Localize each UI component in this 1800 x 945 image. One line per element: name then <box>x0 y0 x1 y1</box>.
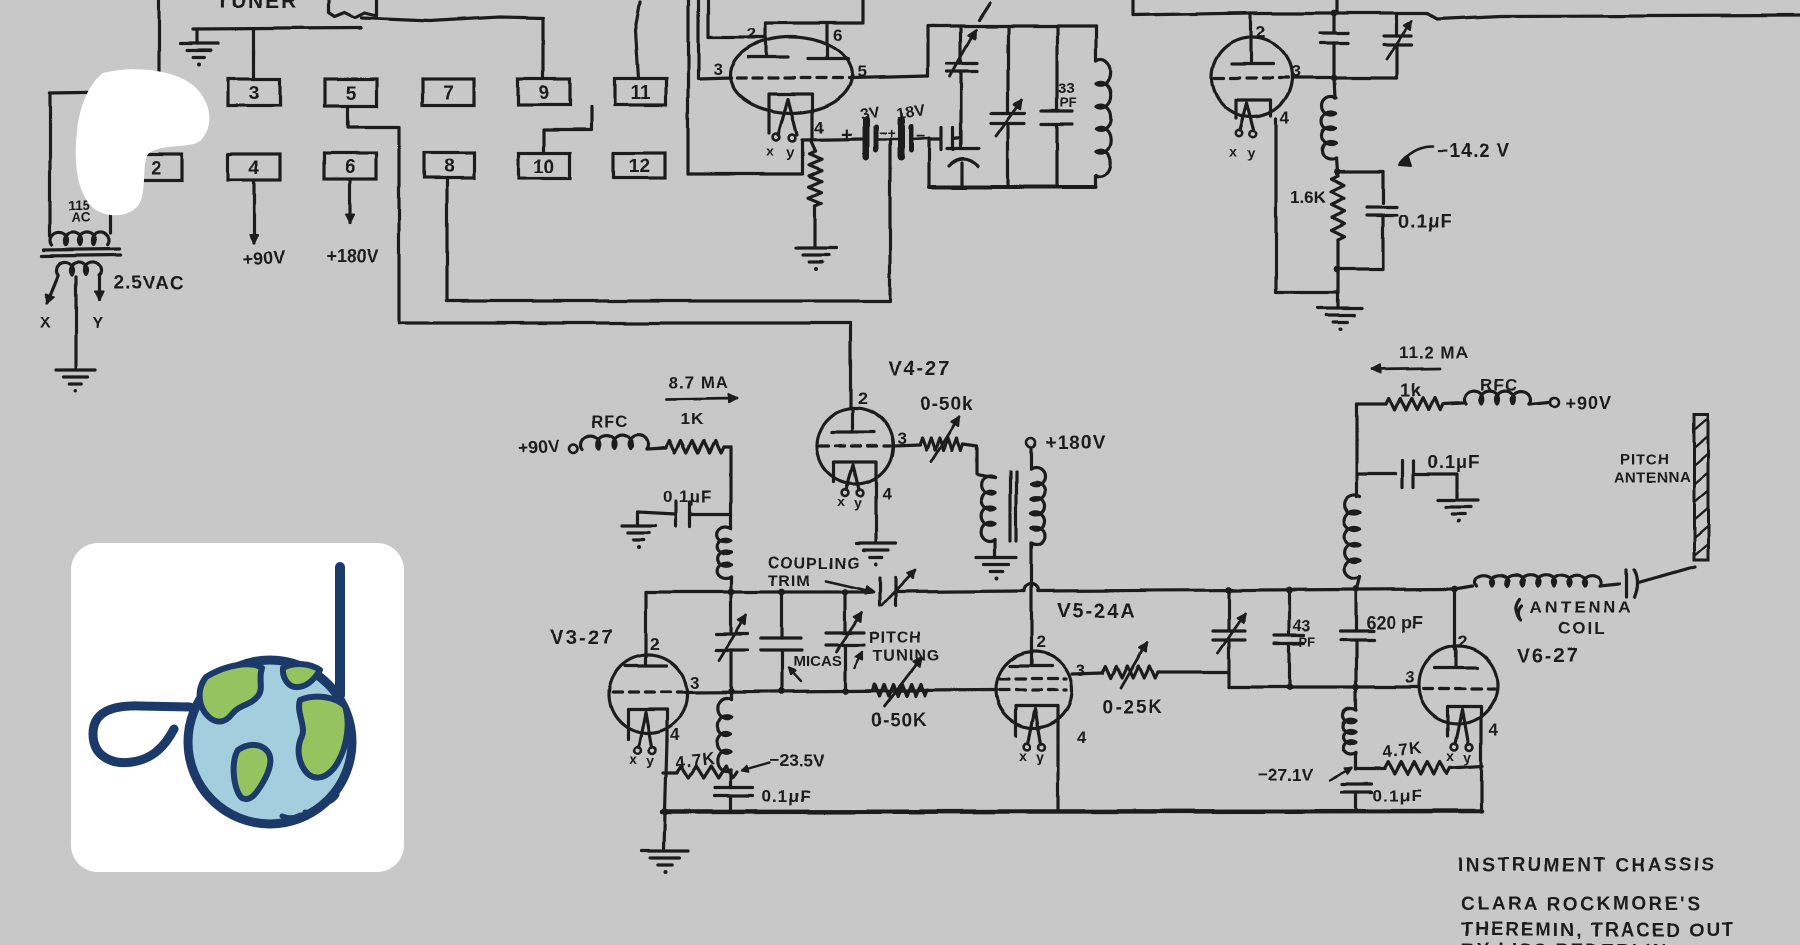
V3 guts <box>613 656 686 768</box>
wire T2 primary ground <box>993 540 996 556</box>
label +180V <box>326 246 379 266</box>
capacitor C1 series <box>929 128 961 150</box>
transformer T2 core <box>1010 471 1016 541</box>
transformer T1 primary winding <box>51 232 110 245</box>
wire V2 pin3 line <box>1292 76 1397 79</box>
svg-text:8: 8 <box>444 157 455 178</box>
capacitor C10 620pF <box>1341 589 1374 687</box>
caption cut line <box>1461 941 1668 945</box>
label 11.2MA <box>1399 343 1469 362</box>
potentiometer R4 0-50K <box>920 417 963 462</box>
terminal box 11 <box>615 79 666 105</box>
label MICAS <box>793 653 841 670</box>
wire L5 to node <box>1354 753 1357 769</box>
wire V5 pin4 down <box>1056 738 1059 811</box>
svg-text:4: 4 <box>1077 728 1087 747</box>
arrow -23.5V pointer <box>742 763 770 772</box>
antenna coil brace <box>1516 599 1522 620</box>
ground G6 C5 <box>622 526 656 549</box>
wire y301 to battery tap <box>447 139 890 301</box>
capacitor C2 33PF <box>1042 26 1072 187</box>
variable capacitor VC7 <box>1213 590 1245 687</box>
svg-text:3: 3 <box>1405 668 1414 687</box>
ground G5 V4 <box>856 543 896 566</box>
label pin2 V3 <box>650 635 659 654</box>
inductor L6 plate tank <box>1345 496 1360 590</box>
junction dot top <box>1331 10 1338 17</box>
V1 cathode box <box>769 94 812 133</box>
label 115 AC <box>68 198 91 225</box>
terminal circle +90V <box>570 444 579 453</box>
wire from top edge to V2 <box>1133 0 1251 15</box>
terminal circle +90V right <box>1550 398 1559 407</box>
label + battery <box>841 124 853 146</box>
terminal box 9 <box>518 79 570 105</box>
V2 xy terminals <box>1229 130 1256 161</box>
wire R3 corner down <box>724 447 731 528</box>
arrow -27.1V pointer <box>1330 768 1352 780</box>
svg-text:RFC: RFC <box>591 412 629 431</box>
wire V1 pin5 to tank <box>852 76 928 78</box>
V3 pin3 line <box>687 690 997 692</box>
label pin3 V1 <box>713 60 722 79</box>
wire V4 pin4 ground <box>874 484 877 541</box>
svg-text:11.2 MA: 11.2 MA <box>1399 343 1469 362</box>
V1 plate left pin2 <box>748 23 788 57</box>
V2 grid dashes <box>1215 76 1292 79</box>
inductor L5 grid leak V6 <box>1343 687 1356 755</box>
label -27.1V <box>1258 765 1313 784</box>
label 1K <box>680 410 704 429</box>
svg-text:+90V: +90V <box>242 247 286 270</box>
V4 guts <box>820 408 890 511</box>
wire TUNER box left edge <box>157 0 160 88</box>
arrow pitch tuning pointer <box>854 652 862 668</box>
terminal box 2 <box>118 154 182 180</box>
caption INSTRUMENT CHASSIS <box>1458 855 1717 876</box>
resistor R6 4.7K <box>663 766 737 778</box>
svg-text:y: y <box>1464 749 1472 765</box>
terminal box 3 <box>228 79 280 106</box>
resistor R9 1K <box>1357 398 1443 410</box>
svg-text:CLARA ROCKMORE'S: CLARA ROCKMORE'S <box>1461 894 1702 915</box>
label PITCH TUNING <box>869 630 940 665</box>
svg-text:x: x <box>837 494 845 510</box>
capacitor C12 0.1uF right <box>1357 461 1457 498</box>
svg-text:y: y <box>1036 749 1044 765</box>
svg-text:y: y <box>786 144 794 160</box>
svg-text:2: 2 <box>151 158 162 179</box>
svg-text:y: y <box>854 495 862 511</box>
svg-text:+: + <box>841 124 853 146</box>
wire battery junction down <box>927 138 930 187</box>
label V6-27 <box>1516 645 1579 667</box>
wire V4 pin3 to pot <box>893 445 920 446</box>
svg-text:43: 43 <box>1293 618 1311 635</box>
svg-text:V4-27: V4-27 <box>888 358 951 380</box>
label pin4 V4 <box>882 484 892 503</box>
junction dot grid <box>1331 75 1338 82</box>
label pin2 V4 <box>858 389 867 408</box>
label TUNER (cut off at top) <box>216 0 298 13</box>
capacitor C7 pitch trim <box>826 592 864 691</box>
tank top rail <box>928 26 1096 76</box>
svg-text:0.1μF: 0.1μF <box>1428 452 1480 472</box>
svg-text:9: 9 <box>539 83 550 104</box>
label pin3 V5 <box>1076 661 1085 680</box>
svg-text:ANTENNA: ANTENNA <box>1614 469 1691 486</box>
label pin4 V6 <box>1488 720 1498 739</box>
wire to varcap corner <box>1334 11 1397 14</box>
wire node L from box12 line <box>688 140 802 174</box>
terminal box 5 <box>325 79 377 106</box>
trimmer cap VC2 curved plate <box>947 136 979 187</box>
wire pot to varcap branch <box>1158 670 1229 673</box>
terminal box 12 <box>614 153 665 178</box>
svg-text:TUNING: TUNING <box>873 648 940 665</box>
label pin3 V3 <box>690 673 699 692</box>
svg-text:V5-24A: V5-24A <box>1057 600 1137 622</box>
ground G4 V2 <box>1318 308 1362 331</box>
wire secondary right lead with arrow <box>95 276 103 300</box>
svg-text:4: 4 <box>1488 720 1498 739</box>
label 0-25K <box>1102 698 1164 719</box>
capacitor C13 antenna series <box>1600 567 1695 597</box>
svg-text:x: x <box>766 143 774 159</box>
tube V2 envelope <box>1212 37 1292 117</box>
svg-text:5: 5 <box>346 84 357 105</box>
label 0-50K upper <box>920 394 974 415</box>
wire block to box9 <box>362 17 543 77</box>
inductor L3 to bus <box>717 527 731 593</box>
wire bus to V6 pin2 <box>1453 589 1456 649</box>
junction dots y687 <box>1286 684 1360 691</box>
label - after 18V <box>916 128 925 145</box>
junction dots bus left <box>728 589 849 596</box>
resistor R3 1K <box>666 441 724 453</box>
label pin3 V2 <box>1291 62 1300 81</box>
junction L4 R6 <box>729 770 732 788</box>
svg-text:MICAS: MICAS <box>793 653 841 670</box>
svg-text:−23.5V: −23.5V <box>770 751 825 770</box>
label 3V <box>859 104 881 124</box>
svg-text:+90V: +90V <box>517 435 561 458</box>
tube V3 envelope <box>609 655 687 733</box>
svg-text:8.7 MA: 8.7 MA <box>669 373 730 392</box>
wire junction up <box>1335 0 1338 13</box>
wire bus corner to V3 pin2 <box>644 592 647 656</box>
label PITCH ANTENNA <box>1614 451 1691 486</box>
tube V4 envelope <box>817 408 893 484</box>
svg-text:+90V: +90V <box>1565 393 1612 413</box>
svg-text:ANTENNA: ANTENNA <box>1530 598 1634 617</box>
label pin2 V1 <box>747 24 756 43</box>
wire V6 pin4 down <box>1479 738 1482 811</box>
svg-text:6: 6 <box>833 26 842 45</box>
svg-text:x: x <box>630 751 638 767</box>
capacitor C6 mica <box>761 592 801 691</box>
svg-text:0-50K: 0-50K <box>871 710 928 731</box>
label 620 pF <box>1366 613 1423 633</box>
label 43 PF <box>1293 618 1316 649</box>
label Y <box>92 315 103 332</box>
svg-text:7: 7 <box>443 83 454 104</box>
svg-text:X: X <box>40 315 51 332</box>
terminal box 10 <box>519 153 570 178</box>
label pin4 V5 <box>1077 728 1087 747</box>
variable capacitor VC6 <box>716 592 748 691</box>
caption CLARA ROCKMORE'S <box>1461 894 1702 915</box>
ground bus <box>662 811 1482 812</box>
variable capacitor VC3 <box>991 26 1025 187</box>
wire top into plate <box>708 0 766 37</box>
transformer T1 core <box>42 249 121 256</box>
svg-text:x: x <box>1019 748 1027 764</box>
bus wire left segment <box>646 590 873 593</box>
svg-text:AC: AC <box>71 210 91 225</box>
inductor L2 grid choke <box>1322 78 1336 159</box>
ground G2 under transformer <box>56 370 96 393</box>
inductor L1 tank <box>1096 26 1111 187</box>
wire y323 to V4 grid <box>399 323 851 408</box>
label V5-24A <box>1057 600 1137 622</box>
svg-text:x: x <box>1447 748 1455 764</box>
wire R2 down <box>1336 240 1339 269</box>
wire V2 pin4 down <box>1276 119 1338 292</box>
resistor R2 1.6K <box>1332 176 1345 240</box>
wire pot to transformer <box>963 444 987 476</box>
capacitor C5 0.1uF <box>638 502 731 526</box>
label +180V mid <box>1046 433 1106 454</box>
V1 xy terminals <box>766 134 795 160</box>
svg-text:2: 2 <box>1036 633 1045 652</box>
V1 filament <box>778 99 797 135</box>
svg-text:x: x <box>1229 144 1237 160</box>
capacitor C4 0.1uF bypass <box>1338 172 1397 269</box>
terminal box 6 <box>324 153 376 179</box>
svg-text:2.5VAC: 2.5VAC <box>113 273 184 294</box>
svg-text:4: 4 <box>1280 108 1290 127</box>
svg-text:COIL: COIL <box>1558 619 1607 638</box>
label +90V feed <box>517 435 561 458</box>
logo card with theremin globe <box>71 543 404 872</box>
label pin4 V3 <box>670 725 680 744</box>
label pin2 V2 <box>1256 22 1265 41</box>
ground G8 main <box>642 851 688 874</box>
label RFC right <box>1480 376 1518 395</box>
V2 plate pin2 <box>1232 13 1273 64</box>
arrow -14.2V pointer <box>1399 146 1433 166</box>
svg-text:4: 4 <box>670 725 680 744</box>
svg-text:4: 4 <box>249 158 260 179</box>
wire battery to junction <box>911 138 929 139</box>
wire T2 sec top to +180V <box>1029 450 1032 469</box>
svg-text:y: y <box>1247 145 1255 161</box>
wire junction to ground <box>1336 269 1339 306</box>
wire plate top bus <box>766 0 863 23</box>
resistor R8 4.7K right <box>1356 762 1482 774</box>
junction dot pin4 bus <box>662 809 669 816</box>
svg-text:PITCH: PITCH <box>869 630 922 647</box>
label +90V right <box>1565 393 1612 413</box>
transformer T2 secondary <box>1031 467 1045 544</box>
ground G1 tuner <box>180 29 218 66</box>
svg-text:INSTRUMENT CHASSIS: INSTRUMENT CHASSIS <box>1458 855 1717 876</box>
label pin3 V6 <box>1405 668 1414 687</box>
label pin2 V5 <box>1036 633 1045 652</box>
pitch antenna bar <box>1694 414 1708 560</box>
wire box5 down-right-down <box>348 106 399 323</box>
tube V5 envelope <box>996 652 1072 728</box>
svg-text:620 pF: 620 pF <box>1366 613 1423 633</box>
label V3-27 <box>551 627 614 649</box>
bus wire right segment <box>896 584 1455 592</box>
label pin4 V1 <box>814 118 824 137</box>
terminal box 7 <box>422 79 474 105</box>
svg-text:PITCH: PITCH <box>1620 451 1670 468</box>
svg-text:2: 2 <box>1256 22 1265 41</box>
arrow coupling trim pointer <box>826 581 874 594</box>
wire V3 pin4 down <box>664 739 667 849</box>
label 18V <box>895 102 926 123</box>
battery B2 18V <box>901 120 911 157</box>
capacitor C11 0.1uF V6 <box>1342 784 1372 811</box>
label 4.7K right <box>1381 739 1423 762</box>
svg-text:−27.1V: −27.1V <box>1258 765 1313 784</box>
wire box9 to box10 jog <box>544 107 591 153</box>
wire L2 to junction <box>1334 158 1341 272</box>
label -23.5V <box>770 751 825 770</box>
wire y687 line <box>1229 685 1419 688</box>
wire top right to edge <box>1397 13 1800 19</box>
svg-text:0.1μF: 0.1μF <box>1373 786 1422 805</box>
inductor RFC1 <box>582 435 648 449</box>
battery B1 3V <box>866 120 876 157</box>
svg-text:3V: 3V <box>859 104 881 124</box>
terminal box 8 <box>424 153 474 178</box>
arrow +180V from box6 <box>346 179 354 222</box>
wire secondary left lead with arrow <box>46 276 58 303</box>
svg-text:2: 2 <box>650 635 659 654</box>
svg-text:COUPLING: COUPLING <box>768 555 860 572</box>
wire center tap down <box>74 277 77 368</box>
svg-text:0.1μF: 0.1μF <box>762 787 811 806</box>
label 0.1uF C8 <box>762 787 811 806</box>
tube V6 envelope <box>1419 646 1497 724</box>
wire pin4 to node <box>810 119 813 140</box>
label pin3 V4 <box>897 429 906 448</box>
svg-text:2: 2 <box>747 24 756 43</box>
label +90V <box>242 247 286 270</box>
label 2.5VAC <box>113 273 184 294</box>
label 0.1uF C11 <box>1373 786 1422 805</box>
label 33 PF <box>1058 80 1077 110</box>
svg-text:2: 2 <box>858 389 867 408</box>
wire node to battery <box>802 139 863 140</box>
svg-text:1K: 1K <box>680 410 704 429</box>
svg-text:3: 3 <box>713 60 722 79</box>
potentiometer R5 0-50K lower <box>872 658 928 706</box>
label RFC1 <box>591 412 629 431</box>
svg-text:4: 4 <box>882 484 892 503</box>
svg-text:V3-27: V3-27 <box>551 627 614 649</box>
wire left vertical to coil <box>1355 404 1358 497</box>
transformer T1 secondary winding <box>57 262 102 275</box>
wire between batteries <box>875 138 899 141</box>
V6 guts <box>1424 649 1494 765</box>
label V4-27 <box>888 358 951 380</box>
V1 grid dashes <box>737 76 852 79</box>
capacitor C8 0.1uF <box>715 788 753 812</box>
svg-text:y: y <box>647 752 655 768</box>
white blob overlay <box>76 69 210 215</box>
tank bottom rail <box>929 185 1096 189</box>
svg-text:TRIM: TRIM <box>768 573 811 590</box>
svg-text:THEREMIN, TRACED OUT: THEREMIN, TRACED OUT <box>1461 920 1735 941</box>
junction dots pin3 line <box>728 688 849 695</box>
label 0-50K lower <box>871 710 928 731</box>
svg-text:3: 3 <box>1076 661 1085 680</box>
V1 plate right pin6 <box>808 23 848 59</box>
svg-text:10: 10 <box>534 157 555 178</box>
svg-text:3: 3 <box>690 673 699 692</box>
small stroke above tank <box>979 3 990 20</box>
arrow micas pointer <box>789 668 801 681</box>
tube V1 envelope <box>730 37 852 113</box>
antenna coil L7 <box>1455 575 1602 589</box>
wire R1 to ground <box>813 206 816 246</box>
ground G3 under R1 <box>796 248 836 271</box>
wire V1 pin3 up <box>698 0 731 79</box>
svg-text:−+: −+ <box>879 125 895 141</box>
variable capacitor VC1 <box>947 26 977 136</box>
junction dots bus right <box>1226 586 1459 594</box>
arrow 11.2MA <box>1372 365 1440 373</box>
terminal circle +180V <box>1027 439 1036 448</box>
svg-text:+180V: +180V <box>1046 433 1106 454</box>
svg-text:11: 11 <box>630 83 651 104</box>
svg-text:2: 2 <box>1458 632 1467 651</box>
connector block J0 at top edge <box>329 0 377 18</box>
V5 guts <box>1000 652 1066 765</box>
wire ground bus to block <box>193 28 361 29</box>
wire V2 plate top <box>1251 11 1334 14</box>
svg-text:0.1μF: 0.1μF <box>663 487 712 506</box>
svg-text:3: 3 <box>249 84 260 105</box>
label -+ between <box>879 125 895 141</box>
svg-text:PF: PF <box>1060 95 1077 110</box>
variable capacitor VC4 <box>1384 13 1412 78</box>
label COUPLING TRIM <box>768 555 860 590</box>
V2 filament <box>1240 103 1254 130</box>
wire box11 up <box>635 2 640 79</box>
arrow +90V from box4 <box>250 180 258 243</box>
svg-text:Y: Y <box>92 315 103 332</box>
svg-text:6: 6 <box>345 157 356 178</box>
V2 cathode box <box>1236 100 1271 118</box>
V5 pin3 wire <box>1072 673 1103 674</box>
label 0.1uF V2 <box>1398 212 1453 233</box>
coupling trim capacitor VC5 <box>880 570 916 606</box>
transformer T2 primary <box>981 476 995 542</box>
svg-text:12: 12 <box>629 157 650 178</box>
svg-text:4: 4 <box>814 118 824 137</box>
label 0.1uF C5 <box>663 487 712 506</box>
label 0.1uF C12 <box>1428 452 1480 472</box>
wire box8 down <box>445 178 448 301</box>
label pin2 V6 <box>1458 632 1467 651</box>
svg-text:0.1μF: 0.1μF <box>1398 212 1453 233</box>
